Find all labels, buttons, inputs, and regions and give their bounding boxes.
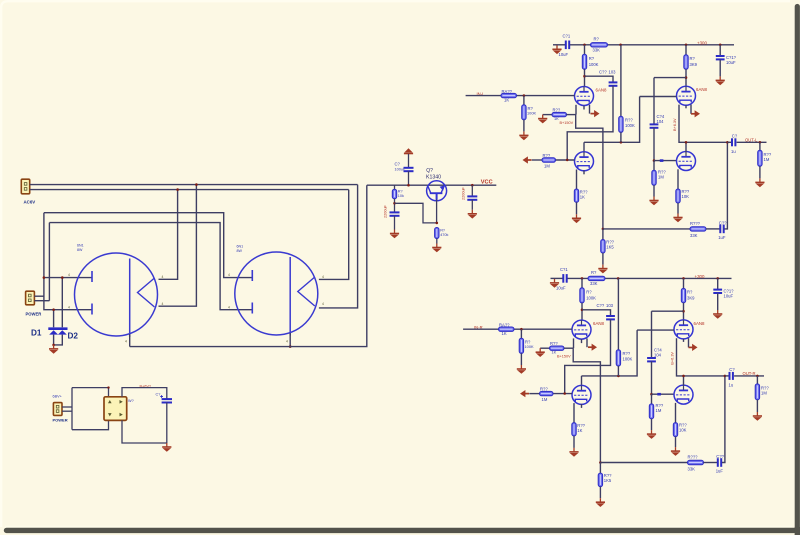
page border shadow bbox=[795, 7, 800, 529]
capacitor C1b 10uF rail input bbox=[563, 274, 566, 283]
junction rail-C b bbox=[716, 277, 719, 280]
junction rail-A a bbox=[619, 44, 622, 47]
svg-text:4: 4 bbox=[322, 302, 324, 306]
wire feedback takeoff a bbox=[576, 115, 603, 229]
resistor R9a 1K cathode V2 bbox=[574, 189, 578, 202]
junction plate V2 net a bbox=[620, 141, 623, 144]
wire feedback up a bbox=[725, 142, 728, 229]
wire cathode V3 SRPP link a bbox=[679, 105, 727, 143]
wire J3 pin1 bbox=[62, 406, 72, 408]
svg-text:6AN8: 6AN8 bbox=[696, 87, 708, 92]
tube V2a triode bbox=[575, 152, 594, 171]
svg-text:4: 4 bbox=[228, 305, 230, 309]
wire grid V2 a bbox=[556, 159, 575, 161]
ground input shunt a bbox=[523, 120, 525, 132]
wire power bus 4 bbox=[49, 223, 252, 310]
svg-text:+300: +300 bbox=[697, 40, 707, 45]
svg-text:100K: 100K bbox=[623, 357, 633, 362]
svg-text:4: 4 bbox=[286, 340, 288, 344]
svg-text:1K5: 1K5 bbox=[604, 478, 612, 483]
svg-text:C?: C? bbox=[729, 367, 735, 372]
junction input b bbox=[520, 328, 523, 331]
ground input shunt b bbox=[520, 353, 522, 365]
resistor R4a 1K cathode V1 bbox=[543, 114, 552, 116]
resistor R10b 3K9 plate V3 bbox=[683, 278, 685, 288]
tube V4b triode bbox=[674, 385, 693, 404]
ground rail-input a bbox=[552, 45, 561, 54]
ground cathode V4 b bbox=[675, 437, 677, 448]
junction grid V2 b bbox=[563, 392, 566, 395]
svg-text:1M: 1M bbox=[658, 175, 664, 180]
svg-text:100K: 100K bbox=[527, 111, 536, 116]
svg-text:33K: 33K bbox=[690, 233, 698, 238]
svg-text:6AN8: 6AN8 bbox=[596, 88, 608, 93]
wire B+ rail a bbox=[553, 44, 565, 46]
svg-text:2200uF: 2200uF bbox=[384, 204, 388, 218]
svg-text:C??: C?? bbox=[597, 303, 605, 308]
junction rail-B b bbox=[682, 277, 685, 280]
ground rail bypass a bbox=[719, 60, 721, 77]
svg-text:RA??: RA?? bbox=[502, 89, 513, 94]
svg-text:1M: 1M bbox=[542, 397, 548, 402]
svg-text:+300: +300 bbox=[695, 274, 705, 279]
junction diode ground bbox=[52, 344, 55, 347]
capacitor C1a 10uF rail input bbox=[566, 41, 569, 50]
ground R15 bbox=[432, 244, 441, 253]
resistor R13b 1M output load bbox=[756, 376, 758, 384]
svg-text:D2: D2 bbox=[68, 332, 79, 341]
ground output load a bbox=[759, 166, 761, 178]
svg-text:104: 104 bbox=[654, 353, 662, 358]
resistor R12b 10K cathode V4 bbox=[673, 423, 677, 437]
tube T2 power triode bbox=[235, 252, 318, 335]
svg-text:100K: 100K bbox=[586, 296, 596, 301]
svg-text:POWER: POWER bbox=[26, 312, 42, 317]
svg-text:1M: 1M bbox=[544, 164, 550, 169]
capacitor C5a output coupling bbox=[727, 141, 731, 143]
resistor R14 bias bbox=[394, 185, 396, 189]
svg-text:C?1: C?1 bbox=[563, 34, 571, 39]
ground C8 bbox=[390, 230, 399, 239]
svg-text:B+150V: B+150V bbox=[557, 354, 571, 358]
wire R15 to ground bbox=[436, 239, 438, 244]
svg-text:10uF: 10uF bbox=[724, 294, 734, 299]
resistor R12a 10K cathode V4 bbox=[676, 189, 680, 203]
wire bridge minus down bbox=[122, 420, 167, 443]
svg-text:R?: R? bbox=[594, 37, 600, 42]
diode D1 bbox=[49, 330, 58, 334]
wire feedback takeoff b bbox=[573, 348, 600, 462]
wire C8 to ground bbox=[394, 216, 396, 230]
wire output a bbox=[737, 141, 767, 143]
svg-text:10K: 10K bbox=[682, 194, 690, 199]
transistor Q1 K1340 bbox=[427, 181, 447, 201]
wire plate V2 a bbox=[583, 142, 585, 152]
capacitor C8 2200uF bbox=[390, 212, 400, 215]
resistor RAb input series bbox=[499, 327, 515, 331]
resistor R7b 100K dropper bbox=[617, 278, 619, 349]
wire raw supply to C7 bbox=[408, 154, 410, 168]
wire feedback row b bbox=[600, 462, 687, 464]
svg-text:R?: R? bbox=[586, 290, 592, 295]
capacitor C3b feedback bbox=[718, 458, 721, 467]
wire VCC to C9 bbox=[471, 185, 473, 196]
ground C9 bbox=[468, 210, 477, 219]
wire to coupling C2 b bbox=[582, 310, 611, 316]
wire R14 to C8 bbox=[394, 199, 396, 212]
wire input b bbox=[463, 328, 498, 330]
resistor R3b 100K input shunt bbox=[520, 329, 522, 338]
wire B+ rail b bbox=[551, 277, 563, 279]
svg-text:4: 4 bbox=[228, 273, 230, 277]
wire D2 anode down bbox=[54, 335, 63, 345]
svg-text:1M: 1M bbox=[761, 391, 767, 396]
svg-text:1uF: 1uF bbox=[718, 235, 726, 240]
svg-text:C?: C? bbox=[395, 162, 401, 167]
wire heater bus 1 bbox=[30, 184, 358, 186]
svg-text:1M: 1M bbox=[656, 408, 662, 413]
ground cathode V2 b bbox=[573, 436, 575, 448]
capacitor C2b coupling bbox=[606, 316, 615, 319]
svg-text:10k: 10k bbox=[398, 194, 404, 198]
ground cathode V2 a bbox=[576, 202, 578, 214]
capacitor C6b rail bypass bbox=[717, 278, 719, 289]
svg-text:C??: C?? bbox=[719, 221, 727, 226]
wire bridge plus to C10 bbox=[122, 388, 167, 399]
wire arrow to R8 a bbox=[532, 159, 542, 161]
resistor R4b 1K cathode V1 bbox=[540, 347, 549, 349]
ground cathode V4 a bbox=[677, 203, 679, 214]
wire to D2 bbox=[61, 278, 63, 328]
wire feedback row a bbox=[603, 228, 690, 230]
svg-text:4: 4 bbox=[322, 275, 324, 279]
svg-text:100uF: 100uF bbox=[395, 168, 406, 172]
capacitor C6a rail bypass bbox=[719, 45, 721, 56]
ground feedback divider a bbox=[602, 253, 604, 265]
ground rail bypass b bbox=[717, 293, 719, 310]
resistor R9b 1K cathode V2 bbox=[572, 423, 576, 436]
svg-text:C?: C? bbox=[156, 393, 161, 397]
wire feedback mid a bbox=[706, 228, 720, 230]
resistor R11b 1M grid leak V4 bbox=[651, 394, 653, 404]
junction feedback a bbox=[602, 228, 605, 231]
svg-text:103: 103 bbox=[606, 303, 614, 308]
port arrow cathode V1 b bbox=[588, 344, 597, 351]
wire J2 pin2 bbox=[34, 300, 49, 302]
wire plate T2 bbox=[289, 257, 291, 336]
junction grid V4 a bbox=[653, 159, 656, 162]
ground output load b bbox=[756, 400, 758, 412]
junction rail-C a bbox=[719, 44, 722, 47]
svg-text:OUT-R: OUT-R bbox=[743, 371, 756, 376]
wire AC to bridge bottom bbox=[72, 420, 109, 429]
junction output a bbox=[759, 141, 762, 144]
wire grid V2 b bbox=[553, 393, 572, 395]
tube V2b triode bbox=[572, 385, 591, 404]
svg-text:2200uF: 2200uF bbox=[462, 186, 466, 200]
wire cathode V4 a bbox=[677, 169, 679, 189]
junction rail-R2 b bbox=[581, 277, 584, 280]
svg-text:470k: 470k bbox=[440, 233, 448, 237]
svg-text:1K: 1K bbox=[504, 98, 509, 103]
wire plate V3 a bbox=[685, 69, 687, 86]
resistor R2b 100K plate load V1 bbox=[581, 278, 583, 287]
wire coupling C2 to grid V2 b bbox=[565, 319, 611, 393]
resistor R11a 1M grid leak V4 bbox=[653, 161, 655, 171]
svg-text:1uF: 1uF bbox=[716, 469, 724, 474]
resistor R3a 100K input shunt bbox=[523, 96, 525, 105]
svg-text:1K: 1K bbox=[580, 195, 585, 200]
grid stopper V4 a bbox=[660, 159, 664, 162]
svg-text:C?1: C?1 bbox=[560, 267, 568, 272]
tube V1a 6AN8 triode bbox=[575, 87, 594, 106]
ground cathode V1 a bbox=[538, 115, 547, 124]
wire bottom bus bbox=[130, 185, 367, 346]
wire to coupling C2 a bbox=[585, 76, 614, 82]
wire plate V4 b bbox=[683, 376, 685, 385]
resistor R5a 1K5 to ground bbox=[602, 229, 604, 240]
svg-text:33K: 33K bbox=[593, 47, 601, 52]
wire coupling C4 to grid V4 a bbox=[653, 128, 655, 161]
diode D2 bbox=[58, 330, 67, 334]
wire C7 to rail bbox=[408, 171, 410, 185]
wire coupling C4 to grid V4 b bbox=[651, 361, 653, 394]
resistor RAa input series bbox=[501, 93, 517, 97]
wire bus2 to T1 upper pin bbox=[159, 190, 178, 280]
svg-text:R??: R?? bbox=[543, 153, 551, 158]
wire output b bbox=[734, 375, 764, 377]
wire C10 down bbox=[166, 403, 168, 444]
tube V1b 6AN8 triode bbox=[572, 320, 591, 339]
svg-text:33K: 33K bbox=[590, 281, 598, 286]
wire to coupling C4 a bbox=[654, 77, 686, 79]
svg-text:6N1: 6N1 bbox=[77, 244, 84, 248]
wire plate V2 b bbox=[581, 376, 583, 386]
svg-text:R?: R? bbox=[687, 290, 693, 295]
svg-text:8W: 8W bbox=[77, 248, 83, 252]
connector J3 POWER input bbox=[53, 403, 62, 416]
ground feedback divider b bbox=[599, 487, 601, 499]
svg-text:D1: D1 bbox=[31, 329, 42, 338]
ground diodes bbox=[49, 345, 58, 354]
svg-text:10uF: 10uF bbox=[726, 60, 736, 65]
svg-text:B+150V: B+150V bbox=[560, 121, 574, 125]
svg-text:6AN8: 6AN8 bbox=[593, 321, 605, 326]
wire emitter Q1 bbox=[436, 200, 438, 223]
svg-text:3K9: 3K9 bbox=[690, 62, 698, 67]
port arrow grid V2 b bbox=[520, 390, 529, 397]
svg-text:C?: C? bbox=[732, 134, 738, 139]
tube T1 power triode bbox=[75, 253, 158, 336]
capacitor C4b coupling bbox=[647, 358, 656, 361]
svg-text:K1340: K1340 bbox=[426, 174, 441, 180]
port arrow cathode V3 b bbox=[689, 344, 698, 351]
wire plate V1 b bbox=[581, 303, 583, 320]
svg-text:6AN8: 6AN8 bbox=[694, 321, 706, 326]
svg-text:4: 4 bbox=[125, 340, 127, 344]
wire grid V3 a bbox=[640, 96, 677, 98]
svg-text:R??: R?? bbox=[625, 118, 633, 123]
ground cathode V1 b bbox=[536, 348, 545, 357]
svg-text:R??: R?? bbox=[553, 108, 561, 113]
svg-text:1K: 1K bbox=[552, 350, 557, 355]
wire J2 pin1 bbox=[34, 295, 44, 297]
wire heater T1 upper bbox=[44, 277, 92, 279]
wire plate T1 bbox=[129, 259, 131, 338]
svg-text:1K: 1K bbox=[577, 428, 582, 433]
capacitor C9 2200uF bbox=[467, 196, 477, 199]
svg-text:R??: R?? bbox=[623, 351, 631, 356]
resistor R6a 33K feedback bbox=[690, 227, 706, 231]
wire cathode V1 legs b bbox=[573, 338, 575, 348]
junction rail-A b bbox=[617, 277, 620, 280]
wire grid V4 b bbox=[652, 393, 675, 395]
wire VCC rail bbox=[367, 184, 497, 186]
capacitor C5b output coupling bbox=[725, 375, 729, 377]
capacitor C3a feedback bbox=[720, 225, 723, 234]
ground grid leak V4 b bbox=[651, 419, 653, 430]
svg-text:100K: 100K bbox=[589, 62, 599, 67]
wire plate V4 a bbox=[685, 142, 687, 151]
wire cathode V2 a bbox=[576, 170, 578, 190]
svg-text:R???: R??? bbox=[690, 221, 701, 226]
svg-text:3K9: 3K9 bbox=[687, 296, 695, 301]
svg-text:C??: C?? bbox=[716, 454, 724, 459]
wire to D1 bbox=[53, 310, 55, 328]
svg-text:R?: R? bbox=[398, 190, 403, 194]
junction input a bbox=[523, 94, 526, 97]
wire arrow to R8 b bbox=[529, 393, 539, 395]
resistor R5b 1K5 to ground bbox=[599, 463, 601, 474]
svg-text:8W: 8W bbox=[237, 249, 243, 253]
wire power bus 3 bbox=[44, 213, 252, 278]
svg-text:1K: 1K bbox=[502, 331, 507, 336]
resistor R1b 33K rail bbox=[588, 276, 605, 280]
junction grid V4 b bbox=[650, 393, 653, 396]
wire feedback mid b bbox=[704, 462, 718, 464]
svg-text:100K: 100K bbox=[625, 123, 635, 128]
capacitor C10 filter bbox=[162, 399, 172, 402]
wire to coupling C4 b bbox=[652, 310, 684, 312]
resistor R8b 1M grid V2 bbox=[540, 391, 554, 395]
tube V3b 6AN8 triode bbox=[674, 320, 693, 339]
capacitor C2a coupling bbox=[609, 82, 618, 85]
svg-text:B+6.3V: B+6.3V bbox=[673, 118, 677, 131]
wire heater bus 2 bbox=[30, 189, 349, 191]
svg-text:4: 4 bbox=[68, 273, 70, 277]
wire bus1 to T1 lower pin bbox=[159, 185, 197, 307]
junction rail-R2 a bbox=[583, 44, 586, 47]
svg-text:1u: 1u bbox=[729, 382, 734, 387]
junction rail-B a bbox=[685, 44, 688, 47]
svg-text:100K: 100K bbox=[525, 344, 534, 349]
svg-text:Q?: Q? bbox=[426, 168, 433, 174]
svg-text:R??: R?? bbox=[550, 341, 558, 346]
wire C9 to ground bbox=[471, 200, 473, 210]
svg-text:4: 4 bbox=[162, 302, 164, 306]
tube V3a 6AN8 triode bbox=[677, 86, 696, 105]
port arrow cathode V3 a bbox=[691, 110, 700, 117]
wire cathode V1 legs a bbox=[575, 105, 577, 115]
svg-text:104: 104 bbox=[657, 119, 665, 124]
wire left vertical B bbox=[48, 223, 50, 301]
diode cathode bar D1 D2 bbox=[48, 327, 67, 330]
resistor R15 470 bbox=[435, 228, 439, 239]
svg-text:R?: R? bbox=[690, 56, 696, 61]
wire cathode V2 b bbox=[573, 403, 575, 423]
wire bus1 to T2 lower pin bbox=[319, 185, 358, 308]
wire grid V4 a bbox=[654, 160, 677, 162]
grid stopper V4 b bbox=[657, 393, 661, 396]
power arrow raw supply bbox=[404, 148, 413, 153]
resistor R1a 33K rail bbox=[591, 43, 608, 47]
junction plate V2 net b bbox=[617, 375, 620, 378]
svg-text:R?: R? bbox=[591, 270, 597, 275]
svg-text:6N1: 6N1 bbox=[237, 245, 244, 249]
wire input a bbox=[466, 95, 501, 97]
resistor R8a 1M grid V2 bbox=[542, 158, 556, 162]
wire grid V1 b bbox=[514, 328, 572, 330]
svg-text:C??: C?? bbox=[599, 70, 607, 75]
wire left vertical A bbox=[44, 213, 92, 310]
resistor R13a 1M output load bbox=[759, 142, 761, 150]
svg-text:AC6V: AC6V bbox=[24, 200, 36, 205]
wire grid V3 b bbox=[637, 329, 674, 331]
junction output b bbox=[756, 375, 759, 378]
bridge rectifier U2 bbox=[104, 397, 127, 421]
svg-text:10K: 10K bbox=[679, 428, 687, 433]
tube V4a triode bbox=[677, 152, 696, 171]
wire feedback up b bbox=[722, 376, 725, 463]
wire J3 riser bbox=[71, 388, 73, 430]
wire cathode V4 b bbox=[675, 403, 677, 423]
svg-text:10uF: 10uF bbox=[559, 52, 569, 57]
wire AC to bridge top bbox=[72, 388, 109, 397]
svg-text:R?: R? bbox=[589, 56, 595, 61]
svg-text:103: 103 bbox=[609, 70, 617, 75]
capacitor C4a coupling bbox=[650, 124, 659, 127]
resistor R7a 100K dropper bbox=[620, 45, 622, 116]
wire grid V1 a bbox=[517, 95, 575, 97]
port arrow grid V2 a bbox=[523, 156, 532, 163]
wire plate V3 b bbox=[683, 303, 685, 320]
junction feedback b bbox=[599, 461, 602, 464]
svg-text:6BV+: 6BV+ bbox=[53, 394, 63, 398]
wire bias to base Q1 bbox=[395, 203, 437, 223]
svg-text:1K: 1K bbox=[554, 116, 559, 121]
connector J2 POWER bbox=[26, 291, 35, 305]
capacitor C7 100uF bbox=[404, 168, 414, 171]
wire bus2 to T2 upper pin bbox=[319, 190, 349, 280]
ground rail-input b bbox=[550, 279, 559, 288]
svg-text:R???: R??? bbox=[688, 455, 699, 460]
resistor R2a 100K plate load V1 bbox=[584, 45, 586, 54]
svg-text:R??: R?? bbox=[540, 387, 548, 392]
svg-text:33K: 33K bbox=[688, 467, 696, 472]
svg-text:POWER: POWER bbox=[53, 417, 68, 422]
svg-text:RA??: RA?? bbox=[499, 323, 510, 328]
ground grid leak V4 a bbox=[653, 185, 655, 196]
wire D1 anode down bbox=[53, 335, 55, 345]
svg-text:4: 4 bbox=[162, 275, 164, 279]
junction VCC cap bbox=[471, 184, 474, 187]
connector J1 AC6V bbox=[21, 179, 29, 194]
wire plate V1 a bbox=[584, 69, 586, 86]
junction grid V2 a bbox=[566, 159, 569, 162]
port arrow cathode V1 a bbox=[591, 110, 600, 117]
svg-text:1u: 1u bbox=[731, 149, 736, 154]
svg-text:1K5: 1K5 bbox=[606, 245, 614, 250]
